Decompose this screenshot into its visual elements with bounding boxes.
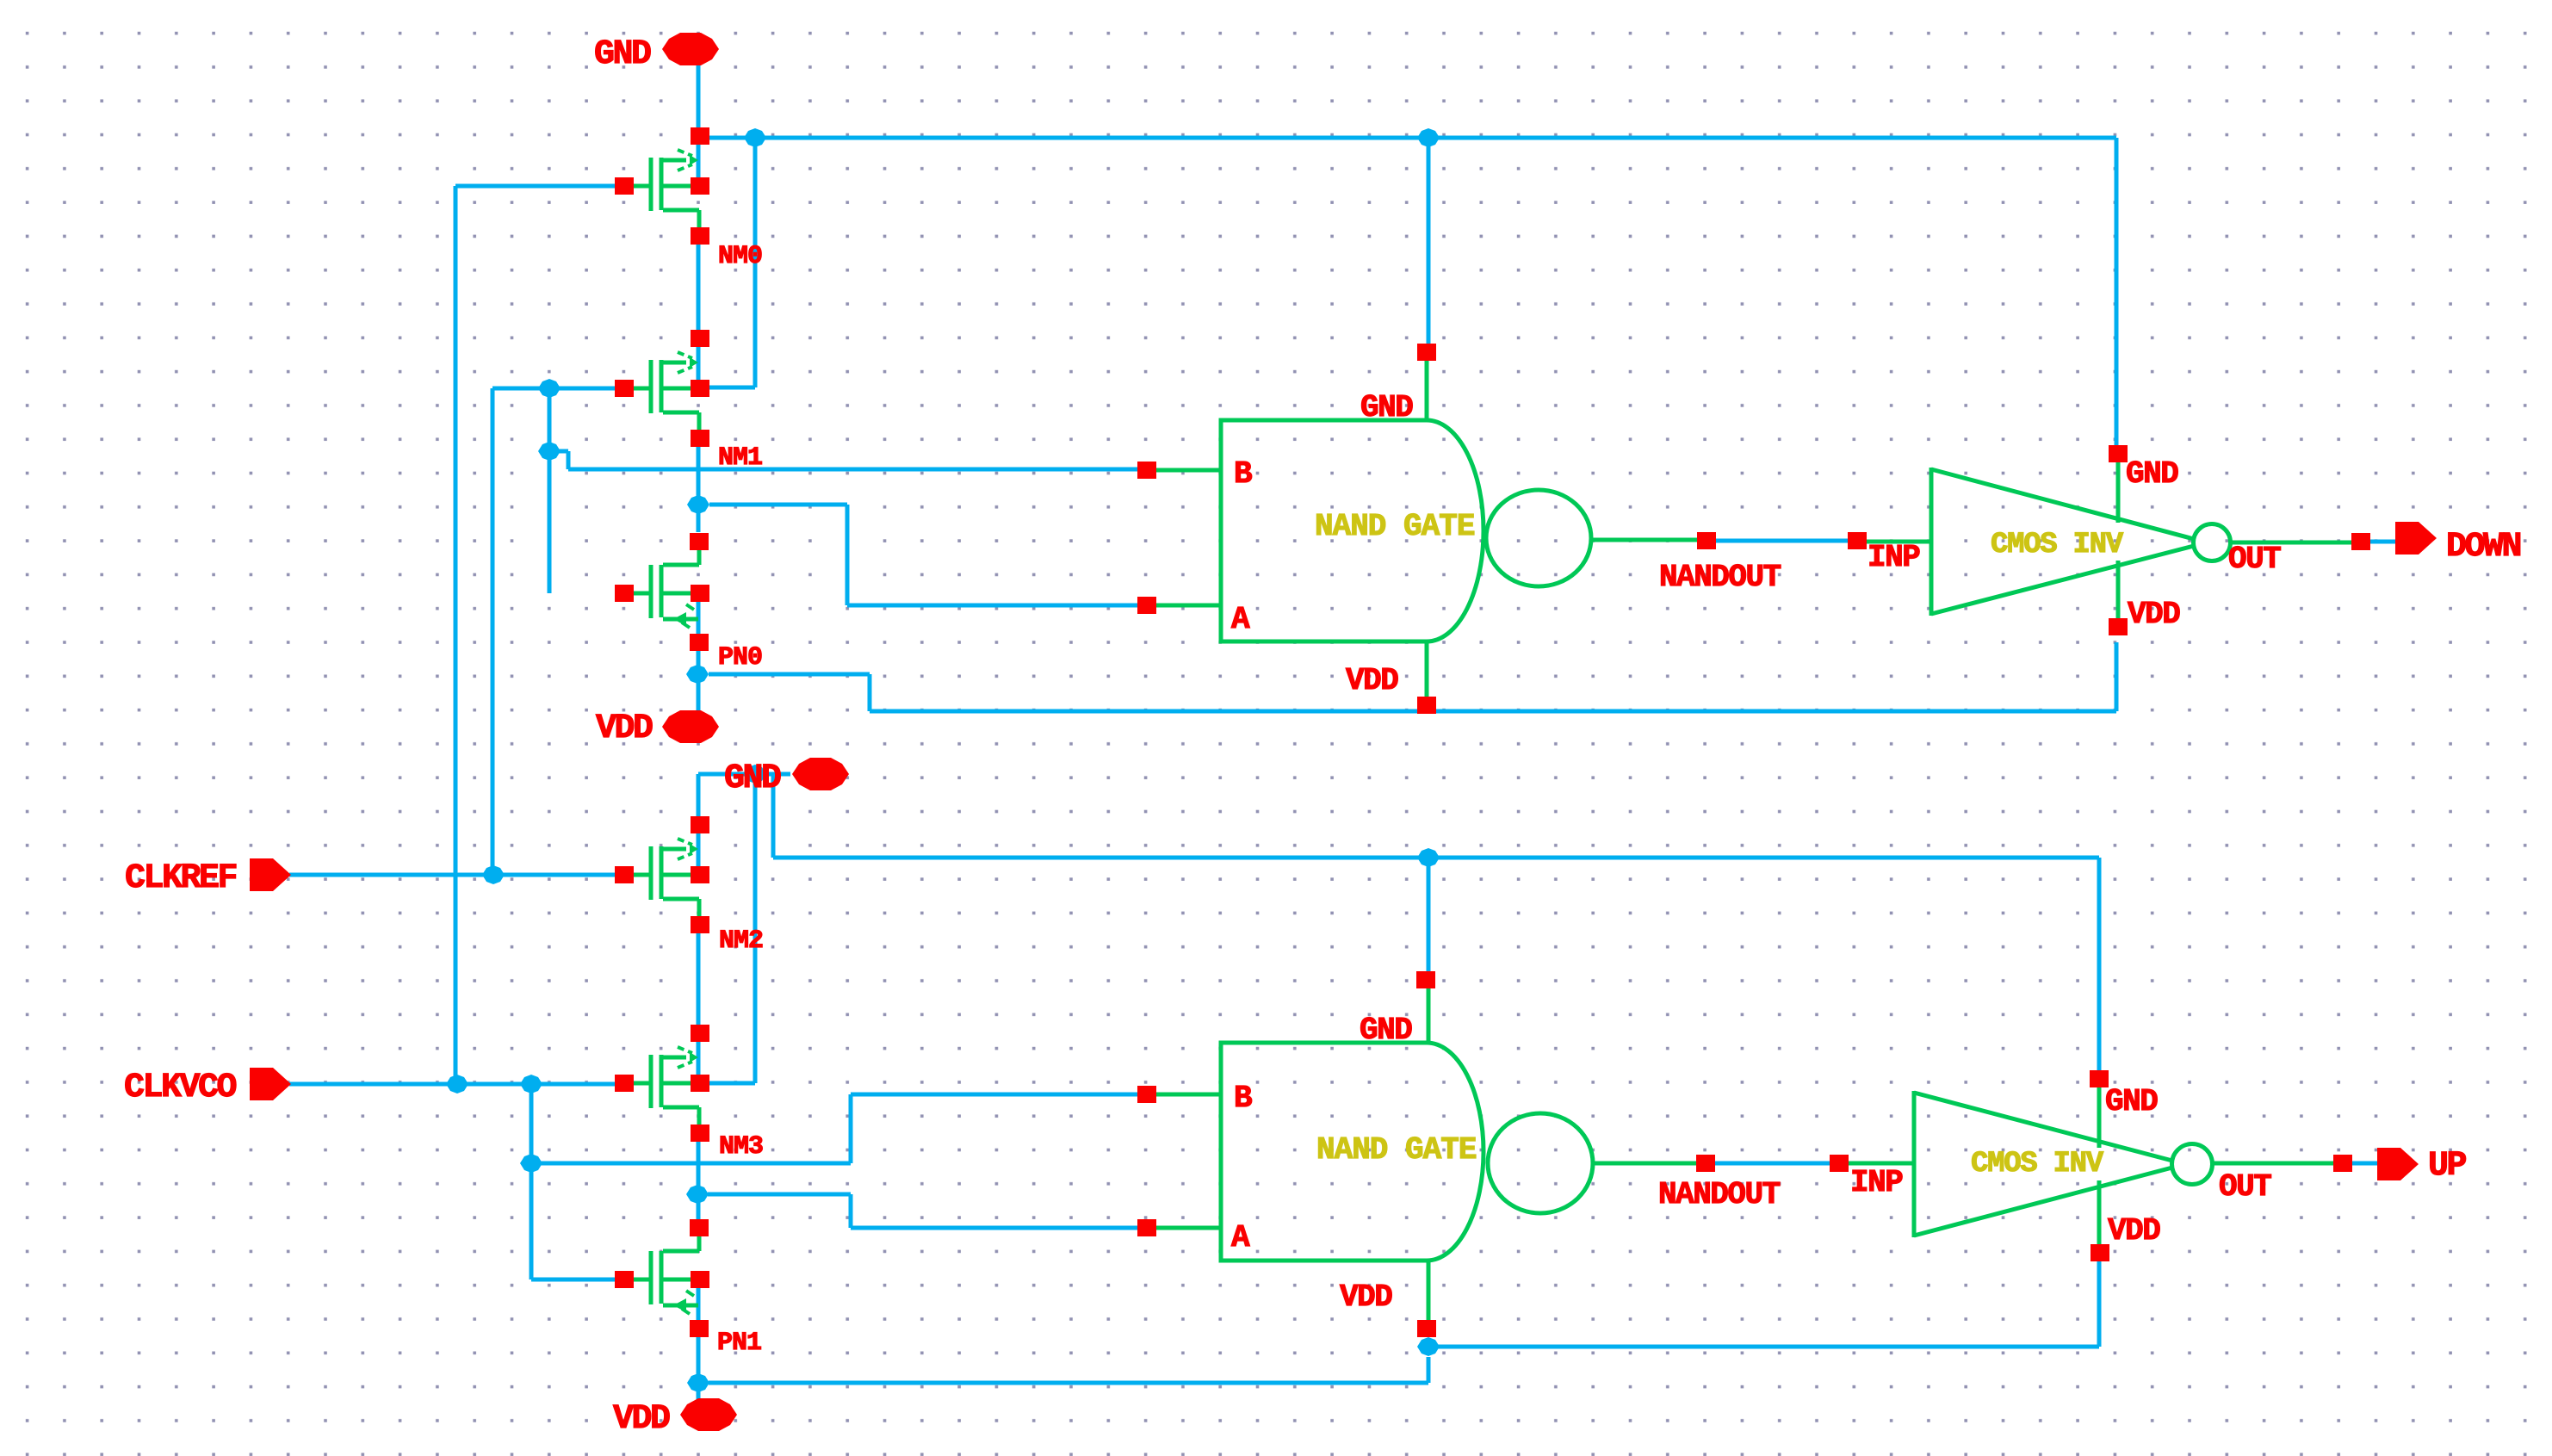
svg-text:PN0: PN0 <box>718 643 762 672</box>
svg-text:NM0: NM0 <box>718 242 762 271</box>
svg-text:INP: INP <box>1850 1165 1903 1200</box>
svg-text:PN1: PN1 <box>717 1329 761 1358</box>
svg-text:NANDOUT: NANDOUT <box>1658 1177 1781 1212</box>
svg-text:NAND GATE: NAND GATE <box>1316 1132 1477 1168</box>
svg-text:NM3: NM3 <box>719 1132 763 1162</box>
svg-text:B: B <box>1234 1081 1252 1116</box>
svg-text:VDD: VDD <box>1340 1279 1392 1315</box>
svg-text:VDD: VDD <box>1346 663 1398 698</box>
svg-text:VDD: VDD <box>2108 1213 2160 1248</box>
svg-text:NM1: NM1 <box>718 443 762 473</box>
svg-text:NAND GATE: NAND GATE <box>1315 509 1475 544</box>
svg-text:VDD: VDD <box>2128 597 2180 632</box>
svg-text:INP: INP <box>1868 540 1920 575</box>
svg-text:GND: GND <box>1360 390 1413 425</box>
svg-text:OUT: OUT <box>2219 1169 2271 1205</box>
svg-text:CMOS INV: CMOS INV <box>1971 1148 2104 1180</box>
svg-text:A: A <box>1231 1220 1250 1255</box>
svg-text:B: B <box>1234 456 1252 492</box>
svg-text:NM2: NM2 <box>719 926 763 956</box>
svg-text:UP: UP <box>2428 1147 2467 1186</box>
svg-text:NANDOUT: NANDOUT <box>1659 560 1781 595</box>
svg-text:VDD: VDD <box>596 709 653 748</box>
svg-text:DOWN: DOWN <box>2446 528 2521 567</box>
svg-text:GND: GND <box>594 35 651 74</box>
svg-text:GND: GND <box>1360 1013 1412 1048</box>
svg-text:GND: GND <box>2105 1084 2158 1119</box>
svg-text:VDD: VDD <box>613 1400 670 1439</box>
svg-text:A: A <box>1231 602 1250 637</box>
svg-text:GND: GND <box>724 759 781 798</box>
svg-text:CLKREF: CLKREF <box>125 859 237 898</box>
svg-text:CMOS INV: CMOS INV <box>1991 529 2124 561</box>
svg-text:GND: GND <box>2126 456 2178 492</box>
svg-text:OUT: OUT <box>2228 542 2281 577</box>
svg-text:CLKVCO: CLKVCO <box>124 1069 237 1107</box>
